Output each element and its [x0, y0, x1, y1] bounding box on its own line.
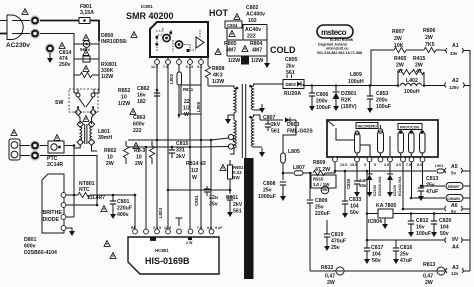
label L801 39mH: [98, 129, 112, 141]
resistor R807: [380, 47, 406, 52]
label C809 25v 220uF: [315, 198, 330, 217]
label PTC 2C14R: [47, 156, 63, 168]
svg-text:(150V): (150V): [341, 104, 357, 110]
svg-text:182: 182: [137, 99, 146, 105]
label SMR 40200: [126, 11, 174, 21]
wire block to ring row2: [20, 155, 30, 157]
switch SW dashed box: [69, 89, 98, 112]
board cap E3: [398, 130, 404, 157]
capacitor C853: [367, 86, 373, 114]
connector ring top: [30, 15, 40, 25]
svg-text:C851: C851: [194, 195, 199, 206]
svg-text:100uF: 100uF: [376, 104, 391, 110]
svg-text:A1: A1: [452, 43, 459, 49]
svg-text:2W: 2W: [425, 280, 433, 286]
svg-text:3: 3: [364, 163, 366, 167]
wire bridge ac1 to degauss rail: [66, 204, 97, 206]
svg-text:400v: 400v: [117, 212, 129, 218]
wire pin5 down: [200, 65, 202, 141]
svg-text:2W: 2W: [327, 280, 335, 286]
label R811 22 1/2 W: [183, 99, 190, 118]
secondary rail A2: [303, 84, 444, 86]
svg-text:2kV: 2kV: [233, 202, 243, 208]
svg-text:104: 104: [372, 252, 381, 258]
capacitor C815: [169, 147, 175, 158]
svg-text:R806: R806: [423, 28, 436, 34]
PTC 2C14R: [40, 141, 74, 153]
bridge pin ac2: [61, 215, 66, 220]
warning triangle left mid: [130, 109, 136, 115]
label box REC/REMO: [356, 123, 378, 129]
svg-text:C809: C809: [315, 198, 328, 204]
board pin 6: [401, 157, 406, 162]
svg-text:C853: C853: [376, 91, 389, 97]
wire HT rails to transformer rings: [201, 138, 229, 147]
IC801 pin 3: [177, 57, 182, 64]
ground arrow hv ladder: [264, 62, 270, 68]
output A1 33v: [444, 43, 470, 271]
warning triangle left of HC801: [110, 253, 116, 259]
wire bridge ac2 stub: [66, 195, 74, 217]
label C805 2kv 561: [285, 57, 298, 76]
svg-text:13.5: 13.5: [340, 163, 347, 167]
svg-text:100uF: 100uF: [416, 231, 431, 237]
warning triangle at C801: [101, 206, 107, 212]
svg-text:2 W: 2 W: [186, 241, 193, 245]
svg-text:A4: A4: [452, 245, 459, 251]
svg-text:msteco: msteco: [321, 28, 347, 37]
capacitor C833: [342, 171, 348, 218]
svg-text:33v: 33v: [450, 51, 458, 56]
svg-text:AC40v: AC40v: [245, 27, 261, 33]
svg-text:1000uF: 1000uF: [258, 194, 276, 200]
svg-text:4M7: 4M7: [226, 48, 236, 54]
label R852 10 1/2W: [118, 88, 131, 107]
label R805 4M7: [224, 41, 237, 54]
svg-text:39mH: 39mH: [98, 135, 112, 141]
svg-text:2W: 2W: [396, 63, 404, 69]
output A6 5v: [445, 203, 470, 214]
svg-text:A5: A5: [451, 164, 458, 170]
svg-text:HOT: HOT: [209, 8, 229, 18]
label R807 2W 10K: [392, 29, 405, 49]
svg-text:R813: R813: [423, 262, 436, 268]
warning triangle R801: [220, 165, 226, 171]
wire pin1 down: [156, 65, 158, 141]
svg-text:C801: C801: [117, 199, 130, 205]
connector ring degauss top: [30, 140, 40, 150]
resistor R809: [313, 163, 335, 176]
wire pin7 to cmain rail: [412, 162, 446, 198]
label HIS-0169B: [145, 256, 190, 266]
svg-text:102: 102: [248, 18, 257, 24]
svg-text:D802: D802: [286, 82, 297, 87]
resistor R801 block: [228, 160, 233, 194]
svg-text:16v: 16v: [137, 93, 146, 99]
sub-board box: [327, 120, 438, 157]
svg-text:FML-G02S: FML-G02S: [287, 129, 313, 135]
capacitor C820: [431, 214, 437, 238]
svg-text:25v: 25v: [263, 188, 272, 194]
resistor R8-3: [149, 141, 154, 164]
label R405 2W 47: [394, 56, 407, 75]
svg-text:W: W: [184, 112, 189, 118]
svg-text:100uH: 100uH: [348, 79, 364, 85]
resistor RX801 on rung3: [74, 72, 99, 77]
svg-text:C863: C863: [133, 115, 146, 121]
label L402 100uH: [404, 78, 420, 95]
HC801 top edge marks: [150, 238, 193, 246]
svg-text:AC400v: AC400v: [246, 12, 265, 18]
svg-text:12 8: 12 8: [164, 226, 171, 230]
svg-text:R405: R405: [394, 56, 407, 62]
label C801 220uF 400v: [117, 199, 132, 218]
label L807: [293, 165, 305, 171]
output C/MAIN: [446, 195, 470, 202]
wire pin2 down: [167, 65, 169, 191]
svg-text:R811: R811: [183, 87, 194, 92]
svg-text:NTC: NTC: [79, 187, 90, 193]
label L802: [169, 73, 174, 84]
board cap E5: [420, 130, 426, 157]
label HC801: [155, 248, 169, 253]
hybrid HC801 box: [128, 237, 219, 274]
label C807 2kV 561: [263, 115, 281, 135]
inductor L807: [294, 171, 312, 175]
label R814 43 1/2 W: [186, 161, 206, 181]
choke L801 output stubs: [74, 145, 97, 152]
wire pin1 to A5 rail: [335, 162, 436, 171]
label D800 INR10D56i: [101, 33, 127, 45]
output 9V A4: [445, 237, 470, 251]
svg-text:R8-3: R8-3: [134, 148, 145, 154]
transformer primary tap wires: [225, 113, 234, 124]
board pin 1: [333, 157, 338, 162]
label C806 200v 100uF: [316, 92, 331, 111]
svg-text:25v: 25v: [400, 252, 409, 258]
svg-text:561: 561: [271, 129, 280, 135]
board pin 3: [367, 157, 372, 162]
diode D803: [260, 115, 296, 123]
svg-text:L802: L802: [169, 73, 174, 84]
zener DZ801: [333, 86, 340, 112]
IC801 pin 5: [199, 57, 204, 64]
capacitor rung2: [74, 56, 99, 62]
transformer core: [242, 84, 245, 158]
wire R808 to primary top: [208, 86, 234, 88]
svg-text:222: 222: [247, 34, 256, 40]
svg-text:2kV: 2kV: [271, 122, 281, 128]
warning triangle above block: [11, 130, 17, 136]
svg-text:W: W: [192, 175, 197, 181]
IC801 internals: [156, 27, 205, 52]
svg-text:104: 104: [350, 204, 359, 210]
svg-text:10: 10: [121, 95, 127, 101]
label C811 2kV 561: [226, 195, 243, 215]
svg-text:2.5 9: 2.5 9: [153, 226, 161, 230]
label DZ801 R2K (150V): [341, 91, 357, 110]
svg-text:104: 104: [440, 225, 449, 231]
svg-text:47 2W: 47 2W: [315, 167, 330, 173]
svg-text:C811: C811: [226, 195, 238, 201]
board wire harness: [336, 125, 390, 157]
svg-text:4.5: 4.5: [384, 163, 389, 167]
svg-text:16v: 16v: [416, 225, 425, 231]
resistor R808: [205, 57, 210, 86]
label RX801 330K 1/2W: [101, 62, 117, 80]
board pin 2: [355, 157, 360, 162]
svg-text:L805: L805: [288, 149, 300, 155]
svg-text:SMR 40200: SMR 40200: [126, 11, 174, 21]
IC801 pin voltage labels: [151, 65, 202, 69]
rail HT top: [128, 139, 211, 141]
svg-text:2W: 2W: [394, 36, 402, 42]
bridge pin ac1: [61, 203, 66, 208]
svg-text:REC/REMO: REC/REMO: [358, 125, 378, 129]
wire node to C809: [309, 173, 311, 199]
label L803: [158, 207, 163, 218]
svg-text:R812: R812: [321, 265, 334, 271]
svg-text:2W: 2W: [415, 63, 423, 69]
svg-text:9.5: 9.5: [207, 226, 212, 230]
svg-text:C862: C862: [137, 86, 150, 92]
HC801 pin 3: [155, 229, 160, 234]
svg-text:C819: C819: [331, 232, 344, 238]
svg-text:001-318-882 882-18-71-888: 001-318-882 882-18-71-888: [317, 51, 362, 55]
capacitor C817: [364, 240, 370, 264]
svg-text:7.9: 7.9: [163, 65, 168, 69]
svg-text:D803: D803: [287, 122, 300, 128]
label C863 600v 222: [133, 115, 146, 134]
HC801 pin 1: [133, 229, 138, 234]
capacitor C810: [354, 162, 360, 197]
resistor R806: [406, 47, 444, 52]
IC801 pin 1: [155, 57, 160, 64]
label C812 16v 100uF: [416, 218, 431, 237]
svg-text:C820: C820: [439, 218, 452, 224]
label C810 1uF 50v: [346, 178, 367, 189]
svg-text:A2: A2: [452, 78, 459, 84]
svg-text:2W: 2W: [425, 35, 433, 41]
svg-text:50v: 50v: [350, 210, 359, 216]
svg-text:C816: C816: [400, 245, 413, 251]
hv ladder rails: [227, 25, 267, 63]
HC801 pin labels: [131, 226, 223, 230]
label KA 7805: [376, 203, 396, 209]
svg-text:561: 561: [233, 209, 242, 215]
warning triangle R808: [215, 49, 221, 55]
board cap E1: [355, 131, 361, 157]
svg-text:L806: L806: [196, 101, 201, 112]
svg-text:R808: R808: [212, 66, 225, 72]
capacitor C801: [110, 195, 116, 219]
inductor L805: [281, 153, 286, 180]
svg-text:L901: L901: [435, 164, 443, 168]
svg-text:7K5: 7K5: [425, 42, 435, 48]
svg-text:C804: C804: [227, 23, 238, 28]
warning triangle R804: [242, 46, 248, 52]
svg-text:IC804: IC804: [368, 219, 382, 225]
svg-text:AC230v: AC230v: [6, 42, 30, 49]
inductor L802: [177, 72, 182, 118]
warning triangle rung3: [83, 66, 89, 72]
svg-text:RESET: RESET: [448, 185, 461, 189]
svg-text:DZ108: DZ108: [373, 185, 377, 196]
capacitor C809: [307, 200, 313, 271]
label R813 0,47 2W: [423, 262, 436, 286]
warning triangle C804: [229, 31, 235, 37]
output RESET: [446, 183, 470, 190]
label C815 331 2kV: [176, 141, 189, 160]
warning triangle rung1: [83, 35, 89, 41]
warning triangle C814: [59, 43, 65, 49]
label L809 100uH: [348, 72, 364, 85]
svg-text:1,0 / 1W: 1,0 / 1W: [313, 182, 330, 187]
svg-text:KA 7805: KA 7805: [376, 203, 396, 209]
svg-text:200v: 200v: [376, 98, 388, 104]
warning triangle rung2: [83, 50, 89, 56]
svg-text:47uF: 47uF: [426, 189, 438, 195]
svg-text:DZ109: DZ109: [393, 185, 397, 196]
thermistor NT801 on B+ wire: [66, 192, 135, 197]
board pin 7: [409, 157, 414, 162]
label C853 200v 100uF: [376, 91, 391, 110]
wire mesh above HC801: [135, 140, 230, 229]
svg-text:D801: D801: [24, 237, 37, 243]
board pin 8: [420, 157, 425, 162]
wire pin8 to reset rail: [423, 162, 446, 186]
board pin voltage labels: [340, 163, 422, 167]
resistor R802: [123, 141, 128, 164]
label C813 25v 47uF: [426, 176, 439, 195]
svg-text:10: 10: [136, 155, 142, 161]
capacitor C811: [227, 197, 233, 217]
label D803 FML-G02S: [287, 122, 313, 135]
svg-text:C815: C815: [176, 141, 189, 147]
wire fuse to corner: [90, 21, 99, 42]
label BRITHE DIODE: [43, 210, 63, 223]
svg-text:470uF: 470uF: [331, 239, 346, 245]
svg-text:R910: R910: [313, 177, 324, 182]
transformer primary junction rings: [228, 134, 234, 149]
inductor L402: [400, 83, 422, 85]
choke L801: [77, 115, 95, 146]
svg-text:5: 5: [374, 163, 376, 167]
label C808 25v 1000uF: [258, 181, 276, 200]
label L806: [196, 101, 201, 112]
bridge pin +: [59, 192, 66, 197]
svg-text:C810: C810: [346, 178, 351, 189]
zener DZ108: [367, 162, 373, 197]
wire degauss bottom run: [40, 156, 97, 206]
warning triangle near plug: [22, 9, 28, 15]
label DZ109 EGA02-06A: [393, 176, 402, 196]
label AC40v 222: [245, 27, 261, 40]
HC801 pin 8: [209, 229, 214, 234]
svg-text:R807: R807: [392, 29, 405, 35]
label F801 3,15A: [80, 4, 94, 16]
svg-text:L402: L402: [406, 78, 418, 84]
svg-text:2W: 2W: [135, 161, 143, 167]
svg-text:C/MAIN: C/MAIN: [447, 197, 460, 201]
label 22u 35v: [209, 195, 218, 208]
board pin 4: [378, 157, 383, 162]
capacitor C807: [265, 120, 271, 131]
svg-text:10: 10: [107, 155, 113, 161]
shield bar: [244, 158, 254, 279]
inductor L901: [435, 164, 444, 173]
AC plug P801: [0, 15, 23, 40]
op-amp ic IC801 box: [150, 22, 208, 57]
label C819 470uF 25v: [331, 232, 346, 251]
warning triangle mid: [133, 143, 139, 149]
wire connector to fuse: [40, 20, 79, 22]
capacitor C808: [280, 182, 286, 201]
label D801 600v D2SB60-4104: [24, 237, 57, 256]
transformer primary bottom stub: [230, 148, 234, 154]
transformer T801 secondary winding upper: [249, 85, 253, 110]
diode D802: [258, 80, 304, 89]
svg-text:1/2W: 1/2W: [228, 58, 240, 64]
HC801 pin 5: [177, 229, 182, 234]
svg-text:PROT/CON: PROT/CON: [400, 126, 419, 130]
transformer T801 primary winding lower: [234, 120, 236, 148]
svg-text:4.5: 4.5: [396, 163, 401, 167]
label IC801: [141, 4, 153, 9]
svg-text:22: 22: [184, 99, 190, 105]
label R812 0,47 2W: [321, 265, 335, 286]
svg-text:220uF: 220uF: [117, 206, 132, 212]
svg-text:25v: 25v: [426, 183, 435, 189]
HC801 pin 7: [199, 229, 204, 234]
svg-text:2W: 2W: [106, 161, 114, 167]
svg-text:50v: 50v: [440, 231, 449, 237]
label IC804: [368, 219, 382, 225]
warning triangle left of IC: [131, 32, 137, 38]
svg-text:C812: C812: [416, 218, 429, 224]
svg-text:600v: 600v: [133, 122, 145, 128]
wire plug to connector top: [12, 20, 30, 22]
wire riser to top rail: [371, 50, 380, 86]
svg-text:15.5: 15.5: [350, 163, 357, 167]
capacitor C816: [393, 240, 399, 264]
svg-text:4M7: 4M7: [252, 48, 262, 54]
label R804 4M7: [250, 41, 263, 54]
output A5 5v top: [444, 164, 470, 176]
svg-text:C813: C813: [426, 176, 439, 182]
svg-text:5.0: 5.0: [417, 163, 422, 167]
svg-text:7.5: 7.5: [406, 163, 411, 167]
label 1/2W right: [251, 58, 263, 64]
bridge pin minus: [61, 226, 66, 231]
resistor pair loop R405 R415: [398, 69, 424, 85]
svg-text:331: 331: [176, 148, 185, 154]
svg-text:R805: R805: [224, 41, 237, 47]
label C862 16v 182: [137, 86, 150, 105]
wire D803 down to L805: [283, 120, 296, 153]
capacitor C819: [324, 220, 330, 251]
label C833 104 50v: [349, 197, 362, 216]
wire pin3 down: [178, 65, 180, 73]
9V rail: [367, 214, 445, 241]
label R806 2W 7K5: [423, 28, 436, 48]
svg-text:1/2W: 1/2W: [212, 79, 224, 85]
ground at bridge minus: [66, 228, 75, 236]
svg-text:2kV: 2kV: [176, 154, 186, 160]
IC801 pin 4: [188, 57, 193, 64]
label C814 474 250v: [59, 50, 72, 68]
IC801 pin 2: [166, 57, 171, 64]
